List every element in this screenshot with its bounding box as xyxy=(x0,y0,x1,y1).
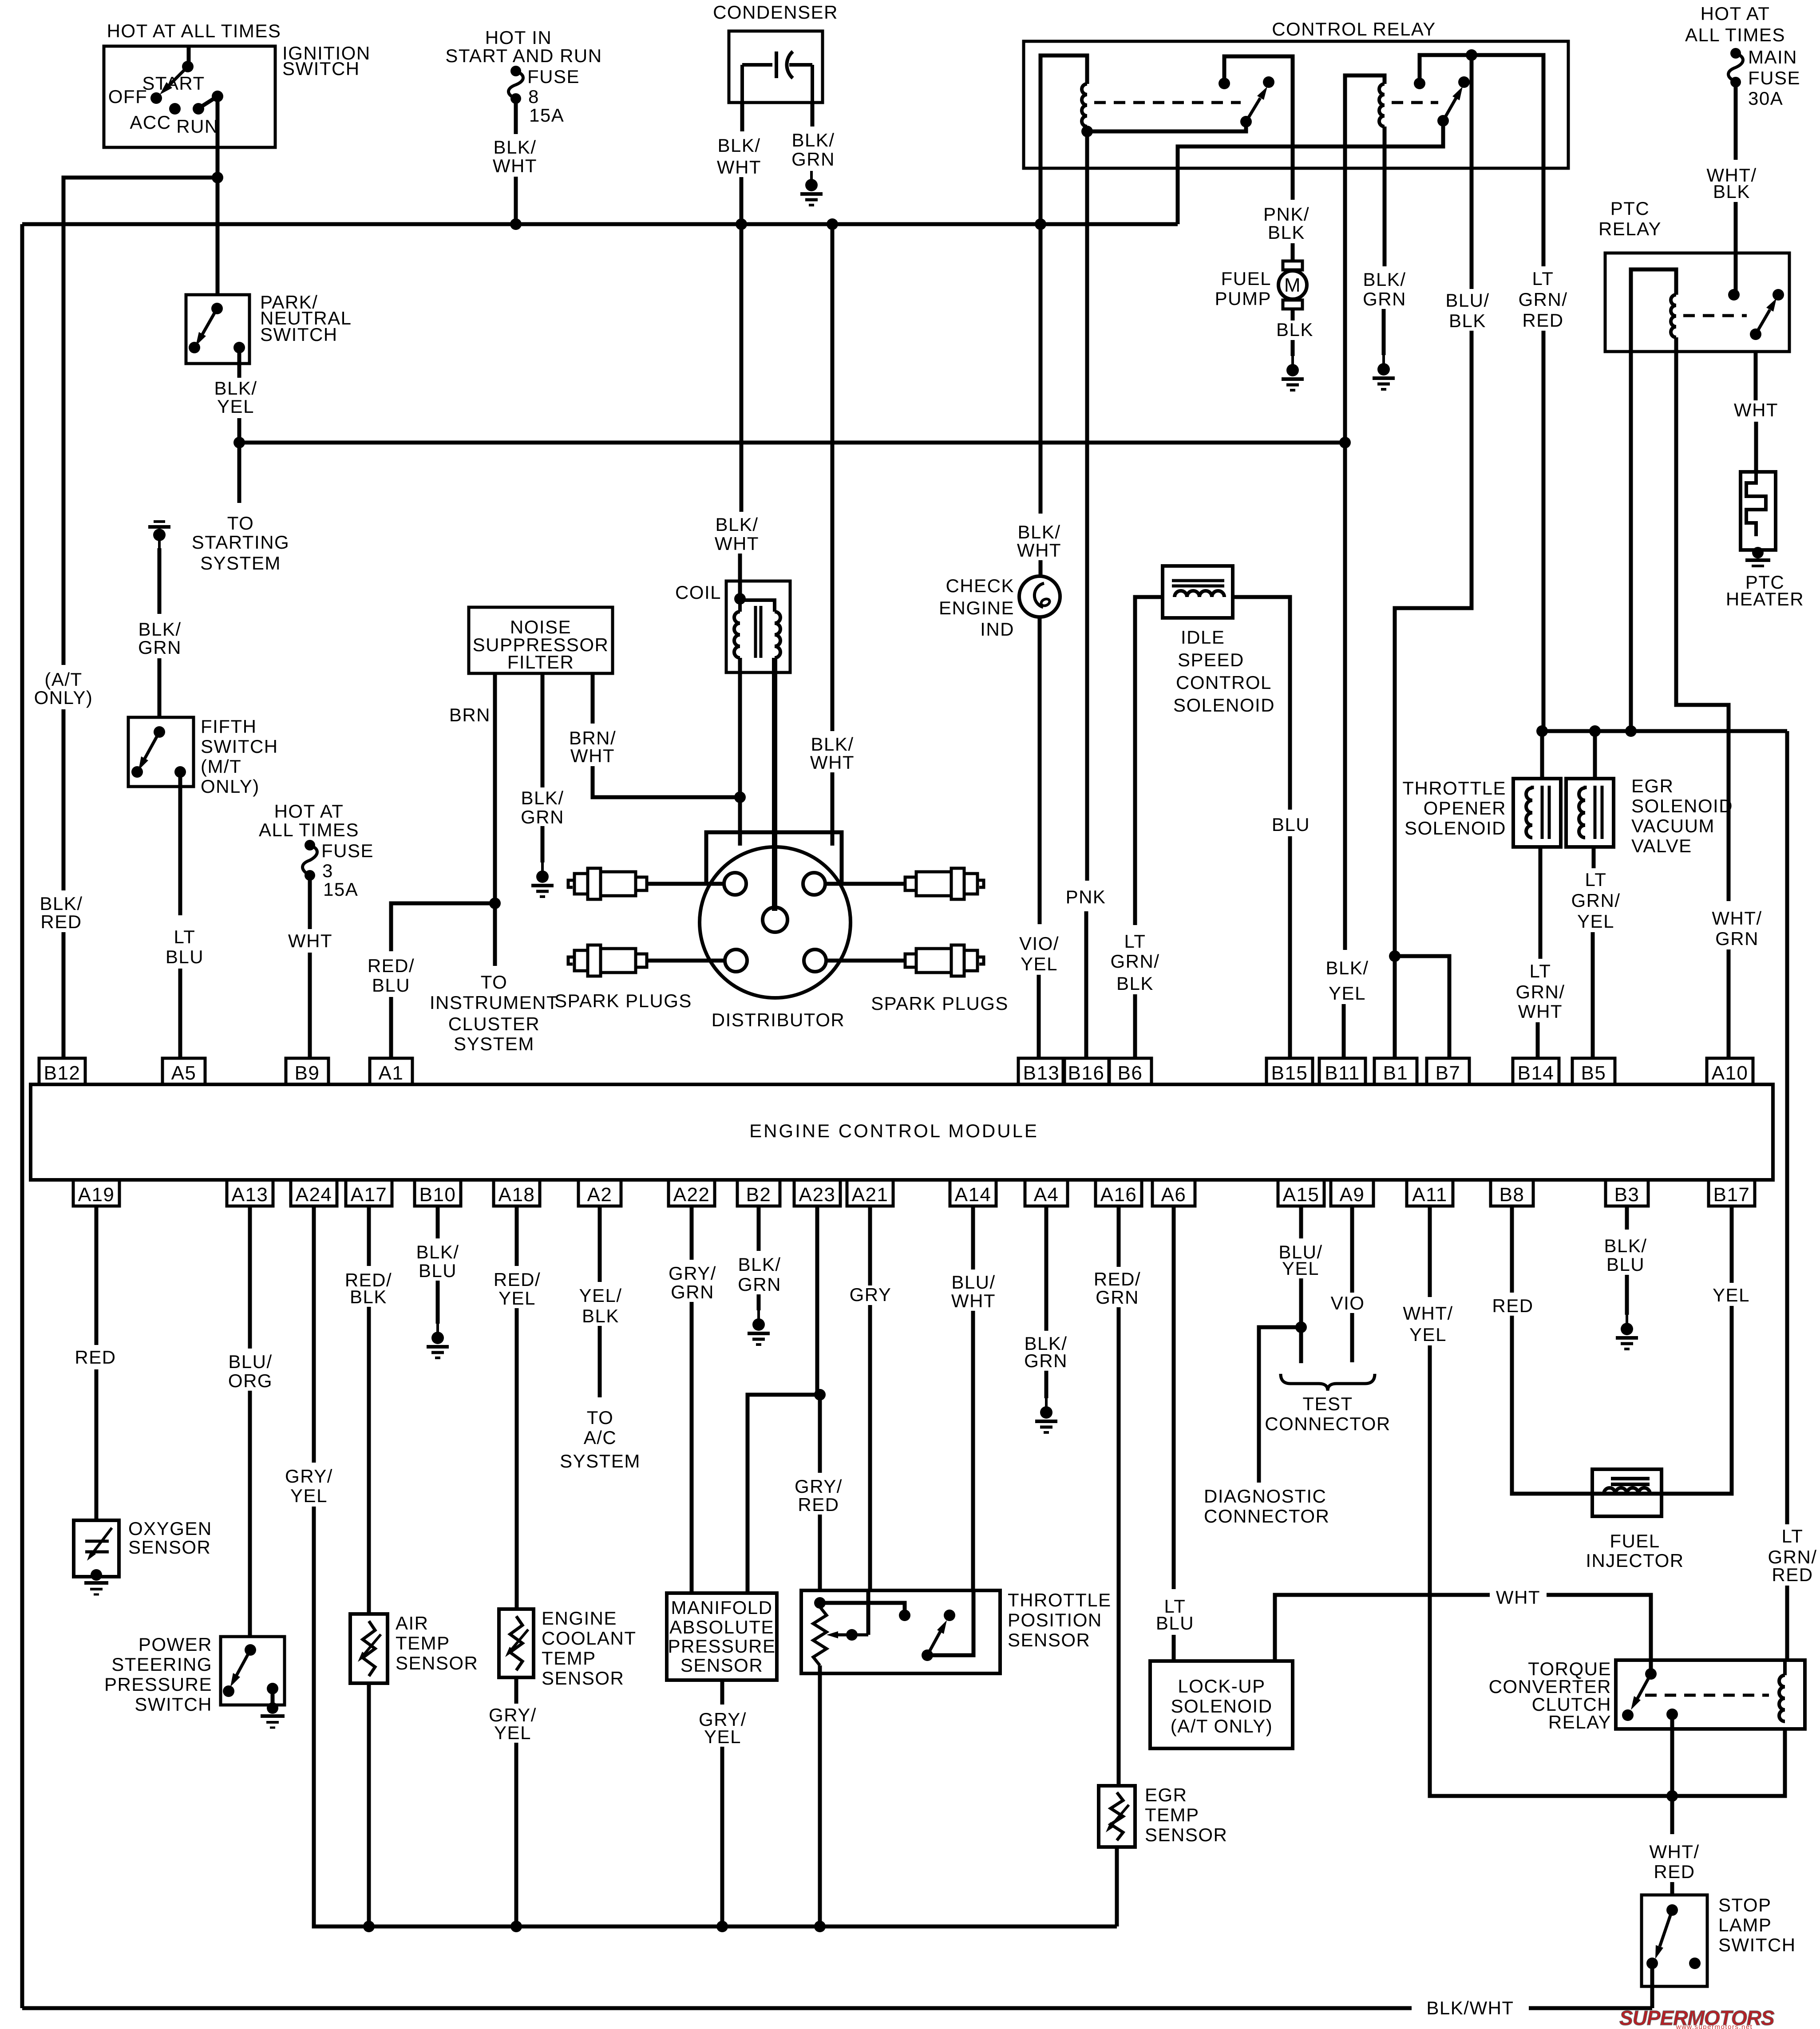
label FUSE 3 15A xyxy=(321,840,374,900)
svg-text:A19: A19 xyxy=(78,1184,115,1206)
wire WHT line to TCC relay xyxy=(1547,1595,1651,1670)
label MANIFOLD ABSOLUTE PRESSURE SENSOR xyxy=(668,1597,775,1676)
TCC relay coil xyxy=(1779,1675,1785,1721)
svg-text:WHT: WHT xyxy=(493,155,537,176)
ECM pin A4 xyxy=(1025,1180,1068,1206)
PTC relay armature arm xyxy=(1756,310,1770,334)
wire EGR temp sensor to return bus xyxy=(1115,1847,1119,1926)
label PNK/BLK xyxy=(1263,204,1310,243)
svg-text:WHT/: WHT/ xyxy=(1649,1841,1699,1862)
wire coolant sensor to GRY/YEL label xyxy=(514,1677,518,1704)
ECM pin A15 xyxy=(1278,1180,1324,1206)
wire YEL/BLK to A/C system xyxy=(598,1326,602,1397)
wire branch to diagnostic connector xyxy=(1259,1327,1301,1483)
wire WHT/RED to stop lamp switch xyxy=(1670,1882,1674,1895)
svg-text:SYSTEM: SYSTEM xyxy=(560,1451,641,1471)
svg-text:YEL: YEL xyxy=(1409,1324,1447,1345)
svg-text:CONNECTOR: CONNECTOR xyxy=(1204,1506,1329,1527)
watermark SUPERMOTORS xyxy=(1619,2006,1775,2029)
label CONDENSER xyxy=(713,2,838,23)
wire control relay coil-2 return to BLK/GRN label xyxy=(1383,168,1387,266)
wire fuse 3 to WHT label xyxy=(308,875,312,929)
label GRY/YEL (coolant) xyxy=(489,1705,537,1743)
svg-text:BLK: BLK xyxy=(1713,181,1750,202)
wire A23 to GRY/RED label xyxy=(818,1395,822,1473)
svg-text:SPARK PLUGS: SPARK PLUGS xyxy=(871,993,1009,1014)
wire noise filter left lead xyxy=(493,673,497,966)
wire VIO to test connector xyxy=(1350,1313,1354,1362)
svg-text:A11: A11 xyxy=(1412,1184,1448,1206)
label BLK/GRN (fifth switch) xyxy=(138,619,182,658)
wire RED to oxygen sensor xyxy=(95,1369,99,1520)
svg-text:B2: B2 xyxy=(746,1184,772,1206)
fuel pump motor xyxy=(1283,261,1302,270)
svg-text:BLK: BLK xyxy=(582,1305,619,1326)
label RED (A19 wire) xyxy=(75,1347,116,1368)
PTC relay coil feed loop xyxy=(1631,269,1676,352)
svg-text:A23: A23 xyxy=(799,1184,836,1206)
ground (A4) xyxy=(1045,1398,1048,1408)
wire PNK to B16 xyxy=(1084,911,1088,1058)
power steering switch arm xyxy=(237,1650,250,1675)
label WHT/BLK xyxy=(1706,165,1757,202)
wire BLK/WHT into distributor cap xyxy=(831,772,835,846)
ground (power steering switch) xyxy=(267,1702,278,1714)
svg-text:YEL: YEL xyxy=(1577,911,1614,932)
wire split to B1 xyxy=(1393,956,1397,1058)
wire tower upper-left to spark plug xyxy=(647,882,724,886)
label LT GRN/WHT (B14 wire) xyxy=(1516,961,1565,1022)
label GRY/GRN (A22 wire) xyxy=(669,1263,716,1302)
wire TCC output to WHT/RED label xyxy=(1670,1714,1674,1834)
svg-text:MAIN: MAIN xyxy=(1748,47,1797,67)
wire coil-2 to BLK/GRN lead xyxy=(1383,127,1387,168)
ECM pin A21 xyxy=(847,1180,893,1206)
svg-text:ABSOLUTE: ABSOLUTE xyxy=(669,1617,774,1637)
PTC relay coil xyxy=(1671,295,1676,337)
svg-text:A24: A24 xyxy=(296,1184,332,1206)
ECM pin B5 xyxy=(1572,1058,1615,1084)
svg-text:A10: A10 xyxy=(1712,1062,1749,1084)
ECM pin A19 xyxy=(73,1180,119,1206)
wire BLK/WHT to check engine bulb xyxy=(1039,560,1043,578)
label (A/T ONLY) xyxy=(34,669,93,708)
svg-text:GRN: GRN xyxy=(791,149,835,170)
label DIAGNOSTIC CONNECTOR xyxy=(1204,1486,1329,1527)
wire BLK/YEL bus to control relay column xyxy=(239,441,1345,445)
svg-text:BLK/: BLK/ xyxy=(493,137,536,158)
svg-text:B1: B1 xyxy=(1383,1062,1409,1084)
svg-text:M: M xyxy=(1284,274,1301,296)
wire condenser left lead xyxy=(740,103,744,131)
wire armature-2 to main bus xyxy=(1178,121,1443,224)
ignition coil core xyxy=(754,606,757,658)
ground (B2) xyxy=(757,1310,760,1320)
ECM pin B6 xyxy=(1109,1058,1151,1084)
control relay armature-1 throw contact xyxy=(1263,76,1274,88)
svg-text:WHT: WHT xyxy=(288,930,332,951)
svg-text:VIO/: VIO/ xyxy=(1019,933,1059,954)
svg-text:BLK/: BLK/ xyxy=(1604,1235,1647,1256)
label BLK/GRN (noise filter) xyxy=(521,787,564,827)
control relay armature-1 arm xyxy=(1246,98,1260,122)
wire BLU/BLK lead inside box xyxy=(1470,55,1474,168)
svg-text:B9: B9 xyxy=(295,1062,320,1084)
wire A1 to noise filter junction xyxy=(389,997,393,1058)
svg-text:PUMP: PUMP xyxy=(1215,288,1271,309)
label LT GRN/BLK (B6 wire) xyxy=(1111,931,1160,994)
svg-text:ENGINE: ENGINE xyxy=(939,597,1014,618)
label BLU/BLK xyxy=(1445,290,1489,331)
wire A16 to RED/GRN label xyxy=(1117,1206,1121,1267)
wire A22 to GRY/GRN label xyxy=(690,1206,694,1260)
wire GRY/YEL coolant to return bus xyxy=(514,1743,518,1926)
wire PTC coil return to A10 (WHT/GRN) xyxy=(1676,352,1729,901)
junction fuse 8 / bus xyxy=(510,218,522,230)
label RED/YEL (A18 wire) xyxy=(494,1269,541,1309)
wire bus to distributor cap BLK/WHT xyxy=(831,224,835,731)
svg-text:ORG: ORG xyxy=(228,1370,273,1391)
label WHT/RED xyxy=(1649,1841,1699,1882)
wire BLK/WHT fuse 8 to bus xyxy=(514,177,518,224)
svg-text:A/C: A/C xyxy=(584,1427,617,1448)
svg-text:ONLY): ONLY) xyxy=(201,776,260,797)
label VIO/YEL (B13 wire) xyxy=(1019,933,1059,974)
throttle position sensor box xyxy=(801,1590,1000,1673)
label START xyxy=(142,73,205,94)
ECM pin A22 xyxy=(669,1180,715,1206)
label ENGINE COOLANT TEMP SENSOR xyxy=(542,1608,637,1689)
ECM pin B10 xyxy=(415,1180,461,1206)
wire PNK/BLK to fuel pump xyxy=(1291,243,1295,262)
label OXYGEN SENSOR xyxy=(128,1518,212,1558)
label STOP LAMP SWITCH xyxy=(1718,1895,1796,1955)
ignition switch box xyxy=(104,46,275,147)
throttle opener solenoid xyxy=(1513,779,1561,847)
label BLK/GRN (condenser) xyxy=(791,130,835,170)
wire GRY/YEL to sensor return bus xyxy=(314,1507,1117,1926)
wire TPS pot to return bus xyxy=(818,1665,822,1926)
ECM pin A10 xyxy=(1707,1058,1753,1084)
ECM pin A6 xyxy=(1152,1180,1195,1206)
svg-text:OFF: OFF xyxy=(108,86,147,107)
wire PTC coil return inside box xyxy=(1674,337,1678,352)
wire A1 upper segment xyxy=(391,903,495,951)
svg-text:INJECTOR: INJECTOR xyxy=(1586,1550,1684,1571)
wire PTC coil feed to solenoid node xyxy=(1629,352,1633,731)
PTC relay fixed contact xyxy=(1728,289,1740,301)
label HOT AT ALL TIMES (main fuse) xyxy=(1685,3,1785,45)
wire fuse 8 to BLK/WHT label xyxy=(514,99,518,134)
svg-text:FUSE: FUSE xyxy=(321,840,374,861)
fifth switch output contact xyxy=(174,766,186,778)
svg-text:BLK/: BLK/ xyxy=(138,619,181,640)
wire LT GRN/WHT to B14 xyxy=(1536,1022,1540,1058)
wire BLK/YEL to junction xyxy=(237,418,241,443)
svg-text:GRN: GRN xyxy=(1024,1350,1068,1371)
svg-text:PRESSURE: PRESSURE xyxy=(668,1636,775,1657)
label GRY/RED (A23 wire) xyxy=(795,1476,843,1515)
svg-text:BLU/: BLU/ xyxy=(951,1272,995,1293)
junction BLK/YEL bus end xyxy=(1339,437,1351,448)
label GRY/YEL (MAP) xyxy=(699,1709,747,1747)
ground (condenser) xyxy=(810,171,813,181)
svg-text:(M/T: (M/T xyxy=(201,756,241,777)
junction MAP / return bus xyxy=(716,1921,728,1932)
label WHT (B9 wire) xyxy=(288,930,332,951)
stop lamp switch arm xyxy=(1660,1910,1672,1946)
svg-text:RELAY: RELAY xyxy=(1598,218,1662,239)
svg-text:START AND RUN: START AND RUN xyxy=(445,45,602,66)
svg-text:BLK/WHT: BLK/WHT xyxy=(1426,1997,1514,2018)
svg-text:RED/: RED/ xyxy=(1094,1269,1141,1289)
label TEST CONNECTOR xyxy=(1265,1393,1390,1434)
wire A11 to WHT/YEL label xyxy=(1428,1206,1432,1297)
svg-text:RUN: RUN xyxy=(176,116,219,137)
svg-text:BLK/: BLK/ xyxy=(214,378,257,399)
wire LT GRN/BLK to B6 xyxy=(1133,994,1137,1058)
svg-text:STOP: STOP xyxy=(1718,1895,1772,1915)
label BLU/WHT (A14 wire) xyxy=(951,1272,996,1311)
svg-text:RED/: RED/ xyxy=(494,1269,541,1290)
wire BLK/GRN to ground xyxy=(1382,309,1386,355)
svg-text:START: START xyxy=(142,73,205,94)
svg-text:SWITCH: SWITCH xyxy=(135,1694,212,1715)
svg-text:SENSOR: SENSOR xyxy=(128,1537,211,1558)
fuse 8 xyxy=(510,66,521,76)
svg-text:BLK/: BLK/ xyxy=(1325,957,1369,978)
svg-text:HEATER: HEATER xyxy=(1726,589,1804,609)
ground (B10) xyxy=(436,1324,439,1333)
ignition switch arm to OFF xyxy=(169,67,188,85)
wire A24 to GRY/YEL label xyxy=(312,1206,316,1463)
wire LT GRN/YEL to B5 xyxy=(1591,932,1595,1058)
svg-text:A18: A18 xyxy=(499,1184,535,1206)
label LOCK-UP SOLENOID (A/T ONLY) xyxy=(1171,1676,1273,1736)
main fuse 30A xyxy=(1730,48,1741,59)
svg-text:EGR: EGR xyxy=(1145,1784,1187,1805)
wire ignition to park/neutral switch xyxy=(216,178,220,295)
ignition switch START contact xyxy=(212,91,223,102)
svg-text:STARTING: STARTING xyxy=(192,532,289,553)
svg-text:GRN: GRN xyxy=(671,1281,714,1302)
junction BLK/YEL bus xyxy=(233,437,245,448)
svg-text:15A: 15A xyxy=(323,879,358,900)
TPS wiper contact xyxy=(846,1629,858,1641)
wire air temp sensor to return bus xyxy=(367,1683,371,1926)
wire BLU/BLK upper segment xyxy=(1470,168,1474,289)
svg-text:CONDENSER: CONDENSER xyxy=(713,2,838,23)
ignition switch OFF contact xyxy=(150,92,162,104)
ECM pin B15 xyxy=(1266,1058,1313,1084)
label BLK/WHT (fuse 8 wire) xyxy=(493,137,537,176)
svg-text:CONNECTOR: CONNECTOR xyxy=(1265,1413,1390,1434)
label LT GRN/YEL (B5 wire) xyxy=(1571,869,1621,932)
svg-text:CHECK: CHECK xyxy=(946,575,1014,596)
svg-text:WHT: WHT xyxy=(1017,540,1061,561)
svg-text:BLU/: BLU/ xyxy=(228,1351,272,1372)
svg-text:BLU: BLU xyxy=(1156,1613,1194,1633)
fifth switch arm xyxy=(145,732,159,759)
torque converter clutch relay box xyxy=(1616,1660,1805,1729)
svg-text:BLK/: BLK/ xyxy=(1017,522,1060,542)
power steering switch input contact xyxy=(245,1644,256,1656)
label OFF xyxy=(108,86,147,107)
svg-text:YEL: YEL xyxy=(290,1485,328,1506)
wire BLU to B15 xyxy=(1288,836,1292,1058)
svg-text:A22: A22 xyxy=(673,1184,710,1206)
svg-text:GRY/: GRY/ xyxy=(285,1466,333,1487)
svg-text:B8: B8 xyxy=(1500,1184,1525,1206)
svg-text:SENSOR: SENSOR xyxy=(542,1668,624,1689)
wire A9 to VIO label xyxy=(1350,1206,1354,1293)
label BLK/GRN (B2 wire) xyxy=(738,1254,781,1295)
svg-text:8: 8 xyxy=(528,86,539,107)
label FIFTH SWITCH (M/T ONLY) xyxy=(201,716,278,797)
wire bus to coil BLK/WHT xyxy=(740,224,744,512)
ECM pin B9 xyxy=(286,1058,328,1084)
wire power steering switch to ground xyxy=(271,1689,275,1706)
wire BLK/GRN A4 to ground xyxy=(1045,1371,1048,1398)
junction solenoid node / throttle opener xyxy=(1536,725,1548,737)
wire main fuse to WHT/BLK label xyxy=(1734,82,1738,160)
svg-text:www.supermotors.net: www.supermotors.net xyxy=(1676,2023,1753,2029)
wire branch to B12 column xyxy=(63,178,218,665)
svg-text:SWITCH: SWITCH xyxy=(260,324,338,345)
idle speed control solenoid xyxy=(1163,566,1233,618)
TCC relay armature contact xyxy=(1622,1709,1634,1721)
junction distributor feed / bus xyxy=(827,218,838,230)
svg-text:RED: RED xyxy=(1654,1861,1695,1882)
label YEL/BLK (A2 wire) xyxy=(579,1285,622,1326)
wire coil primary to distributor xyxy=(738,658,742,846)
svg-text:B17: B17 xyxy=(1713,1184,1750,1206)
svg-text:OXYGEN: OXYGEN xyxy=(128,1518,212,1539)
dashed actuator link relay 2 xyxy=(1392,101,1438,104)
ECM pin B17 xyxy=(1709,1180,1755,1206)
svg-text:BLK: BLK xyxy=(1449,310,1486,331)
capacitor element (condenser) xyxy=(742,63,772,67)
wire contact-1 to PNK/BLK lead xyxy=(1224,56,1293,168)
TPS wiper arm xyxy=(838,1633,868,1637)
svg-text:A4: A4 xyxy=(1034,1184,1059,1206)
label ENGINE CONTROL MODULE xyxy=(749,1120,1039,1141)
svg-text:A13: A13 xyxy=(232,1184,269,1206)
air temp sensor xyxy=(350,1614,388,1683)
distributor tower upper-left xyxy=(724,873,746,895)
stop lamp switch box xyxy=(1642,1895,1707,1986)
ground (control relay coil 2) xyxy=(1382,355,1385,365)
ECM pin B13 xyxy=(1018,1058,1064,1084)
wire BLU/ORG to power steering switch xyxy=(248,1391,252,1637)
svg-text:YEL: YEL xyxy=(1282,1258,1319,1279)
label WHT/YEL (A11 wire) xyxy=(1403,1303,1453,1345)
svg-text:WHT/: WHT/ xyxy=(1403,1303,1453,1324)
svg-text:B15: B15 xyxy=(1271,1062,1308,1084)
wire LT BLU to A5 xyxy=(178,969,182,1058)
control relay contact-2 fixed xyxy=(1414,78,1425,89)
wire ignition START down to junction xyxy=(216,96,220,178)
wire check engine bulb to VIO/YEL label xyxy=(1038,617,1042,924)
ECM pin B16 xyxy=(1063,1058,1109,1084)
wire noise filter right lead xyxy=(591,673,595,724)
wire contact-2 loop to BLU/BLK and LT GRN/RED leads xyxy=(1420,55,1543,168)
park/neutral switch arm xyxy=(202,309,217,334)
ECM pin A9 xyxy=(1331,1180,1373,1206)
ignition switch pivot contact xyxy=(182,61,194,72)
ground (fifth switch feed) xyxy=(158,538,161,548)
PTC heater xyxy=(1741,472,1776,550)
svg-text:GRY/: GRY/ xyxy=(795,1476,843,1497)
label ACC xyxy=(130,112,171,133)
svg-text:TO: TO xyxy=(481,972,508,993)
svg-text:B11: B11 xyxy=(1325,1062,1360,1084)
svg-text:YEL: YEL xyxy=(704,1726,741,1747)
svg-text:SOLENOID: SOLENOID xyxy=(1173,695,1275,716)
svg-text:ONLY): ONLY) xyxy=(34,687,93,708)
svg-text:BLK: BLK xyxy=(1268,222,1305,243)
wire A14 to BLU/WHT label xyxy=(971,1206,975,1270)
svg-text:BLK: BLK xyxy=(1276,319,1314,340)
control relay coil 2 xyxy=(1379,84,1385,127)
engine coolant temp sensor xyxy=(499,1609,534,1677)
ignition switch RUN contact xyxy=(193,103,204,115)
svg-text:HOT AT: HOT AT xyxy=(1701,3,1770,24)
label RED (B8 wire) xyxy=(1492,1295,1533,1316)
svg-text:WHT/: WHT/ xyxy=(1712,908,1762,929)
manifold absolute pressure sensor box xyxy=(667,1593,777,1680)
label BLK (fuel pump ground wire) xyxy=(1276,319,1314,340)
svg-text:RED: RED xyxy=(1492,1295,1533,1316)
control relay armature-2 arm xyxy=(1443,98,1456,121)
wire RED to fuel injector xyxy=(1512,1316,1592,1494)
label RED/GRN (A16 wire) xyxy=(1094,1269,1141,1308)
wire tower lower-right to spark plug xyxy=(826,959,905,963)
svg-text:DISTRIBUTOR: DISTRIBUTOR xyxy=(712,1009,845,1030)
wire to starting system xyxy=(237,443,241,503)
svg-text:B5: B5 xyxy=(1581,1062,1606,1084)
svg-text:EGR: EGR xyxy=(1631,775,1674,796)
svg-text:BLK/: BLK/ xyxy=(521,787,564,808)
ECM pin A11 xyxy=(1407,1180,1453,1206)
label CONTROL RELAY xyxy=(1272,19,1436,40)
ECM pin A18 xyxy=(494,1180,540,1206)
wire TPS wiper to A21 xyxy=(866,1590,870,1635)
svg-text:HOT AT ALL TIMES: HOT AT ALL TIMES xyxy=(107,20,281,41)
wire split to B7 xyxy=(1395,956,1449,1058)
PTC relay armature pivot xyxy=(1750,328,1761,340)
svg-text:LOCK-UP: LOCK-UP xyxy=(1178,1676,1265,1697)
TPS supply contact xyxy=(814,1597,826,1609)
wire A17 to RED/BLK label xyxy=(367,1206,371,1266)
wire fuel pump to BLK label xyxy=(1291,309,1295,320)
label WHT (PTC heater wire) xyxy=(1734,399,1778,420)
test connector brace xyxy=(1281,1374,1375,1391)
label PNK (B16 wire) xyxy=(1066,886,1106,907)
svg-text:SPARK PLUGS: SPARK PLUGS xyxy=(554,990,692,1011)
wire A21 to GRY label xyxy=(868,1206,872,1285)
label PTC RELAY xyxy=(1598,198,1662,239)
junction A1 / noise filter wire xyxy=(489,898,501,909)
label SPARK PLUGS (left) xyxy=(554,990,692,1011)
svg-text:SYSTEM: SYSTEM xyxy=(454,1033,534,1054)
junction solenoid node / PTC coil xyxy=(1625,725,1637,737)
wire coil-1 junction to B16 xyxy=(1085,131,1089,881)
svg-text:FIFTH: FIFTH xyxy=(201,716,257,737)
power steering switch output contact xyxy=(267,1683,278,1694)
svg-text:A2: A2 xyxy=(587,1184,613,1206)
label MAIN FUSE 30A xyxy=(1748,47,1800,109)
